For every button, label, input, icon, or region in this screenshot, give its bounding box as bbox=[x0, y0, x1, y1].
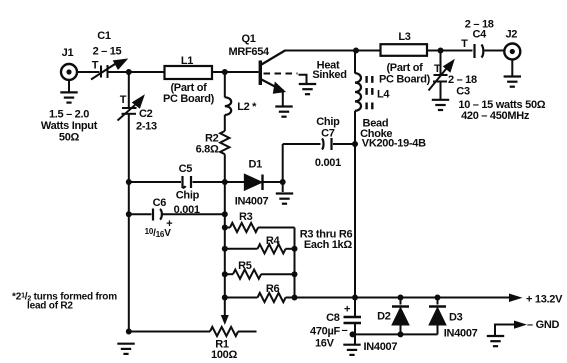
svg-text:Each 1kΩ: Each 1kΩ bbox=[304, 239, 352, 251]
svg-text:lead of R2: lead of R2 bbox=[27, 301, 73, 312]
svg-text:100Ω: 100Ω bbox=[211, 349, 237, 361]
svg-text:1.5 – 2.0: 1.5 – 2.0 bbox=[49, 109, 89, 121]
svg-text:IN4007: IN4007 bbox=[235, 195, 269, 207]
svg-text:2-13: 2-13 bbox=[136, 121, 157, 133]
svg-text:Sinked: Sinked bbox=[312, 69, 346, 81]
svg-text:(Part of: (Part of bbox=[386, 62, 423, 74]
svg-text:C8: C8 bbox=[326, 312, 340, 324]
svg-text:T: T bbox=[461, 38, 468, 50]
svg-text:0.001: 0.001 bbox=[174, 204, 200, 216]
svg-text:C5: C5 bbox=[179, 163, 193, 175]
svg-text:Chip: Chip bbox=[316, 116, 340, 128]
svg-text:420 – 450MHz: 420 – 450MHz bbox=[461, 110, 530, 122]
svg-text:Watts Input: Watts Input bbox=[41, 120, 98, 132]
svg-text:C6: C6 bbox=[153, 197, 167, 209]
svg-text:D2: D2 bbox=[377, 311, 391, 323]
svg-text:6.8Ω: 6.8Ω bbox=[196, 144, 219, 156]
svg-text:16V: 16V bbox=[315, 338, 335, 350]
svg-text:R4: R4 bbox=[266, 235, 281, 247]
svg-text:L1: L1 bbox=[181, 55, 193, 67]
svg-text:Q1: Q1 bbox=[241, 33, 255, 45]
svg-text:L4: L4 bbox=[377, 89, 390, 101]
svg-text:C3: C3 bbox=[456, 86, 470, 98]
svg-text:2 – 15: 2 – 15 bbox=[93, 46, 122, 58]
svg-text:– GND: – GND bbox=[527, 319, 559, 331]
svg-text:2 – 18: 2 – 18 bbox=[448, 74, 477, 86]
svg-text:T: T bbox=[120, 94, 127, 106]
svg-text:0.001: 0.001 bbox=[315, 157, 341, 169]
svg-text:MRF654: MRF654 bbox=[229, 46, 271, 58]
svg-text:J1: J1 bbox=[62, 47, 74, 59]
svg-text:IN4007: IN4007 bbox=[444, 328, 478, 340]
svg-text:10 – 15 watts 50Ω: 10 – 15 watts 50Ω bbox=[458, 99, 545, 111]
svg-text:+: + bbox=[344, 304, 350, 316]
svg-text:C7: C7 bbox=[321, 127, 335, 139]
svg-text:VK200-19-4B: VK200-19-4B bbox=[362, 138, 426, 150]
svg-text:C4: C4 bbox=[472, 29, 487, 41]
svg-text:R5: R5 bbox=[238, 260, 252, 272]
svg-text:PC Board): PC Board) bbox=[163, 93, 215, 105]
svg-text:470µF: 470µF bbox=[310, 325, 340, 337]
svg-text:R6: R6 bbox=[266, 283, 280, 295]
svg-text:IN4007: IN4007 bbox=[364, 341, 398, 353]
svg-text:(Part of: (Part of bbox=[170, 82, 207, 94]
svg-text:R3: R3 bbox=[239, 211, 253, 223]
svg-text:L3: L3 bbox=[398, 31, 410, 43]
svg-text:Chip: Chip bbox=[176, 190, 200, 202]
svg-text:+ 13.2V: + 13.2V bbox=[526, 293, 563, 305]
svg-text:D3: D3 bbox=[449, 312, 463, 324]
svg-text:PC Board): PC Board) bbox=[379, 74, 431, 86]
svg-text:T: T bbox=[434, 63, 441, 75]
svg-text:–: – bbox=[342, 324, 348, 336]
svg-text:C1: C1 bbox=[97, 30, 111, 42]
svg-text:T: T bbox=[92, 60, 99, 72]
svg-text:C2: C2 bbox=[139, 108, 153, 120]
svg-text:J2: J2 bbox=[505, 29, 517, 41]
svg-text:L2 *: L2 * bbox=[237, 101, 257, 113]
svg-text:50Ω: 50Ω bbox=[59, 132, 80, 144]
svg-text:D1: D1 bbox=[248, 159, 262, 171]
